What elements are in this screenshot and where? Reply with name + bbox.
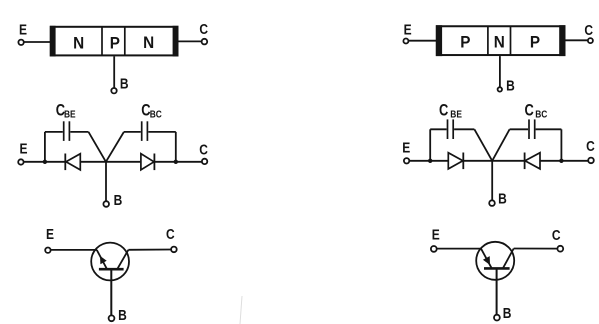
svg-text:N: N (73, 34, 84, 53)
svg-text:B: B (506, 77, 515, 94)
svg-text:E: E (46, 226, 54, 243)
svg-text:C: C (584, 22, 593, 39)
svg-text:C: C (199, 21, 208, 38)
svg-text:C: C (552, 227, 561, 244)
svg-text:E: E (404, 21, 412, 38)
svg-text:E: E (19, 140, 27, 157)
svg-text:C: C (199, 141, 208, 158)
svg-text:B: B (114, 192, 123, 209)
svg-text:N: N (494, 33, 505, 52)
svg-text:C: C (439, 102, 449, 120)
svg-text:P: P (110, 34, 120, 53)
svg-text:BE: BE (450, 109, 462, 121)
svg-text:B: B (120, 75, 129, 92)
svg-text:C: C (586, 138, 595, 155)
svg-text:N: N (143, 33, 154, 52)
svg-text:B: B (118, 307, 127, 324)
svg-text:E: E (19, 21, 27, 38)
svg-text:B: B (498, 190, 507, 207)
svg-text:BE: BE (64, 109, 76, 121)
svg-text:BC: BC (150, 109, 162, 121)
svg-text:P: P (530, 33, 540, 52)
svg-text:C: C (525, 102, 535, 120)
svg-text:P: P (460, 33, 470, 52)
svg-text:E: E (402, 139, 410, 156)
svg-text:E: E (432, 226, 440, 243)
svg-text:B: B (503, 305, 512, 322)
svg-text:BC: BC (535, 109, 547, 121)
svg-text:C: C (166, 226, 175, 243)
